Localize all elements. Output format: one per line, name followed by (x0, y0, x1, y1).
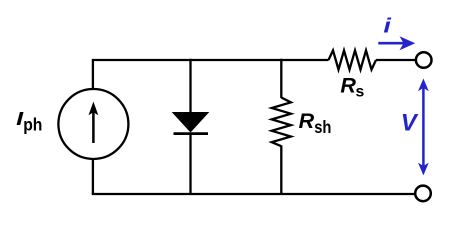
svg-text:ph: ph (23, 114, 42, 134)
node + terminal circle top (416, 52, 432, 68)
voltage arrow V double-headed (418, 79, 429, 176)
label R_s (340, 73, 364, 100)
label i (383, 15, 391, 37)
current source arrow (89, 102, 99, 144)
resistor R_sh zigzag (272, 98, 291, 147)
svg-text:s: s (356, 84, 365, 101)
node - terminal circle bottom (415, 186, 431, 202)
wire top rail left segment (top-left corner to R_s) (93, 60, 329, 89)
current source U1 circle (58, 89, 128, 159)
resistor R_s zigzag (329, 50, 377, 69)
wire R_s to positive terminal (376, 59, 415, 61)
wire diode branch lower (189, 134, 191, 194)
current arrow i (378, 36, 415, 50)
label V (401, 110, 419, 137)
wire left vertical below current source to bottom rail (92, 160, 94, 194)
wire bottom rail (93, 193, 415, 194)
svg-text:R: R (340, 73, 356, 97)
svg-text:i: i (383, 15, 391, 37)
svg-text:sh: sh (314, 117, 331, 137)
diode D1 (172, 112, 210, 134)
wire diode branch upper (189, 59, 191, 113)
svg-text:R: R (299, 109, 315, 133)
wire R_sh branch upper (280, 59, 282, 98)
label R_sh (299, 109, 332, 137)
label I_ph (16, 109, 42, 135)
svg-text:V: V (401, 110, 419, 137)
wire R_sh branch lower (280, 146, 282, 195)
